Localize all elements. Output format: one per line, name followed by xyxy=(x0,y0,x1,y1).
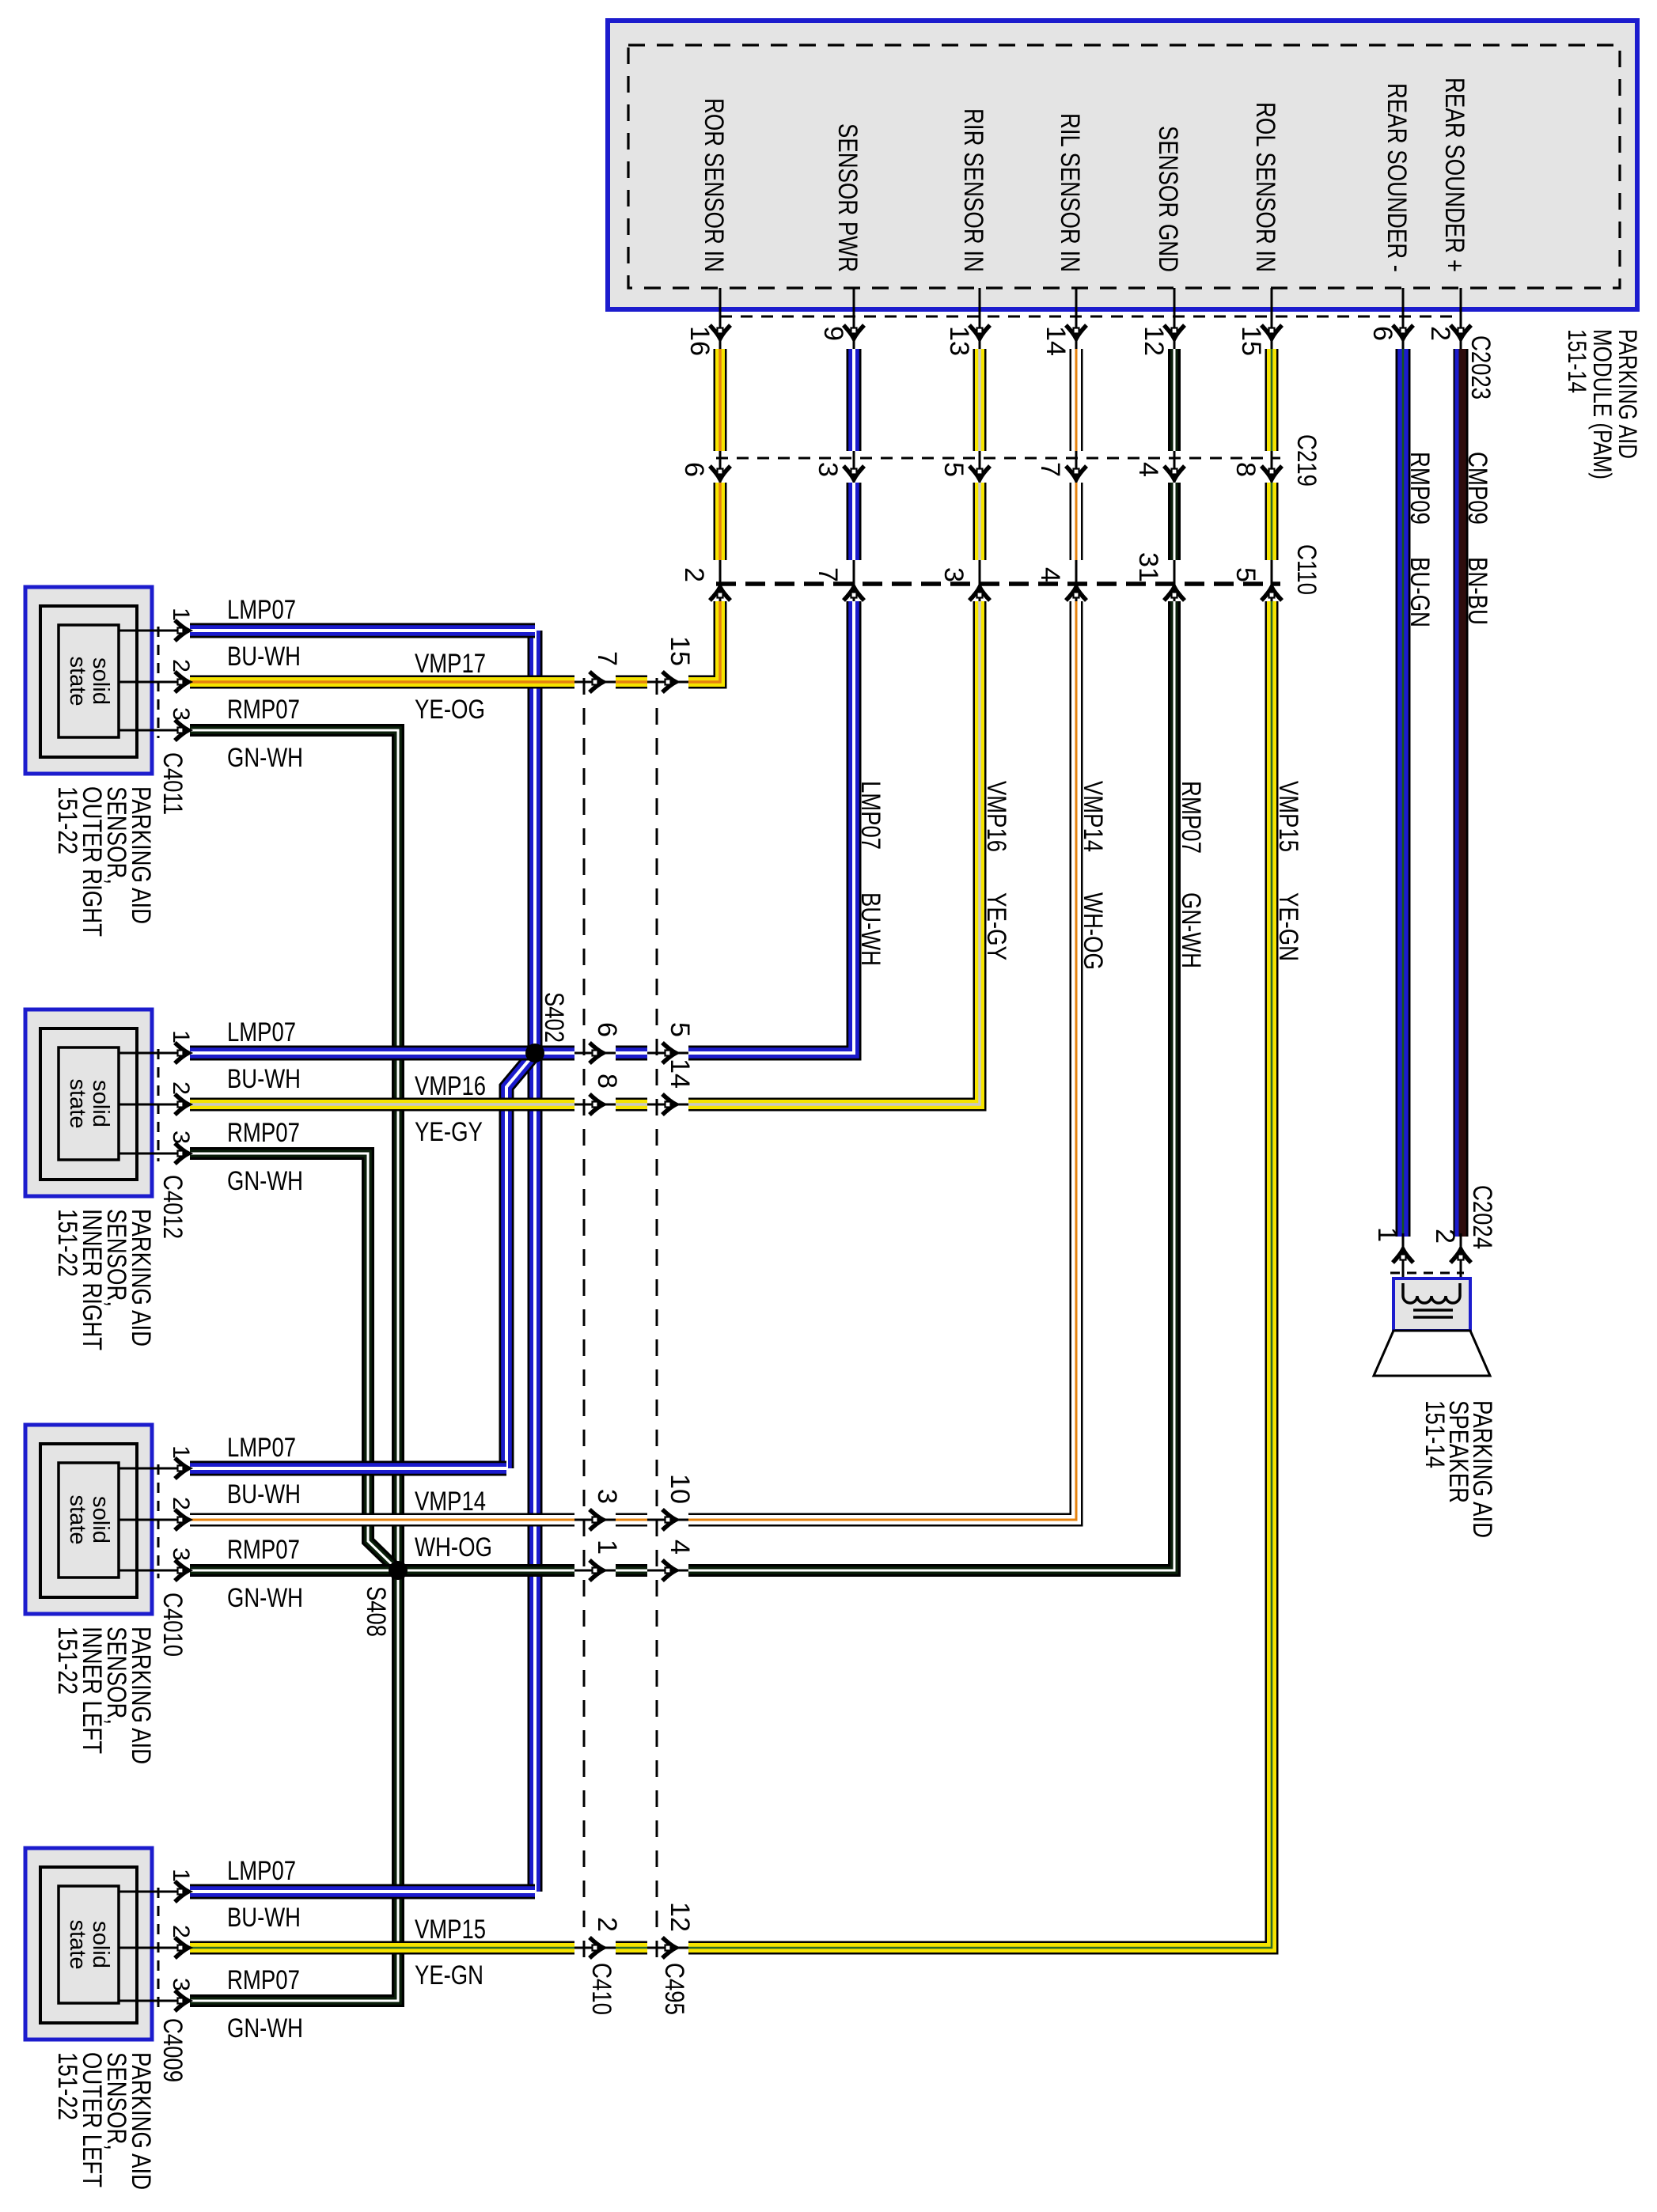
svg-text:151-22: 151-22 xyxy=(52,786,82,854)
svg-text:RMP07: RMP07 xyxy=(227,695,300,725)
svg-text:6: 6 xyxy=(679,462,709,477)
svg-text:3: 3 xyxy=(168,1131,194,1144)
svg-text:3: 3 xyxy=(168,1547,194,1561)
svg-text:YE-GY: YE-GY xyxy=(415,1117,483,1147)
svg-text:BU-WH: BU-WH xyxy=(227,642,301,672)
svg-text:15: 15 xyxy=(1236,326,1266,356)
svg-text:C2024: C2024 xyxy=(1467,1185,1497,1249)
svg-text:5: 5 xyxy=(938,462,969,477)
svg-text:SENSOR GND: SENSOR GND xyxy=(1153,126,1183,272)
svg-text:VMP15: VMP15 xyxy=(415,1915,486,1945)
svg-text:7: 7 xyxy=(1035,462,1065,477)
svg-text:3: 3 xyxy=(938,567,969,582)
svg-text:state: state xyxy=(65,1920,90,1970)
svg-text:16: 16 xyxy=(684,326,715,356)
svg-text:GN-WH: GN-WH xyxy=(227,743,303,773)
svg-text:5: 5 xyxy=(1230,567,1261,582)
svg-text:3: 3 xyxy=(168,707,194,721)
svg-text:ROR SENSOR IN: ROR SENSOR IN xyxy=(699,98,729,272)
svg-text:S408: S408 xyxy=(361,1586,391,1637)
svg-text:GN-WH: GN-WH xyxy=(227,1583,303,1613)
svg-text:14: 14 xyxy=(665,1059,695,1089)
svg-text:31: 31 xyxy=(1133,552,1163,582)
svg-text:BU-WH: BU-WH xyxy=(227,1064,301,1094)
svg-text:2: 2 xyxy=(1430,1229,1460,1244)
svg-text:2: 2 xyxy=(168,1497,194,1510)
svg-text:4: 4 xyxy=(665,1540,695,1555)
svg-text:3: 3 xyxy=(592,1489,622,1504)
svg-text:4: 4 xyxy=(1035,567,1065,582)
svg-text:1: 1 xyxy=(592,1540,622,1555)
svg-text:151-22: 151-22 xyxy=(52,1209,82,1277)
svg-text:RMP07: RMP07 xyxy=(1176,781,1206,854)
svg-text:2: 2 xyxy=(679,567,709,582)
svg-text:REAR SOUNDER -: REAR SOUNDER - xyxy=(1382,83,1412,272)
svg-text:SENSOR PWR: SENSOR PWR xyxy=(832,123,863,272)
svg-text:13: 13 xyxy=(944,326,974,356)
svg-text:RMP07: RMP07 xyxy=(227,1118,300,1148)
svg-text:LMP07: LMP07 xyxy=(227,1017,296,1047)
svg-text:RMP07: RMP07 xyxy=(227,1965,300,1995)
svg-text:GN-WH: GN-WH xyxy=(1176,892,1206,968)
svg-text:REAR SOUNDER +: REAR SOUNDER + xyxy=(1439,78,1469,272)
svg-text:2: 2 xyxy=(168,1081,194,1095)
svg-text:PARKING AID: PARKING AID xyxy=(1613,329,1642,459)
svg-text:YE-GY: YE-GY xyxy=(981,892,1011,960)
svg-text:1: 1 xyxy=(168,608,194,621)
svg-text:14: 14 xyxy=(1041,326,1071,356)
svg-text:5: 5 xyxy=(665,1022,695,1037)
svg-text:VMP15: VMP15 xyxy=(1273,781,1303,852)
svg-text:C4009: C4009 xyxy=(157,2018,188,2082)
svg-text:YE-OG: YE-OG xyxy=(415,695,485,725)
svg-text:C110: C110 xyxy=(1291,544,1321,595)
svg-text:C4010: C4010 xyxy=(157,1593,188,1657)
svg-text:YE-GN: YE-GN xyxy=(415,1960,483,1990)
svg-text:3: 3 xyxy=(168,1978,194,1991)
svg-text:2: 2 xyxy=(592,1917,622,1932)
svg-text:1: 1 xyxy=(168,1445,194,1459)
svg-text:6: 6 xyxy=(592,1022,622,1037)
svg-text:12: 12 xyxy=(1139,326,1169,356)
svg-text:151-14: 151-14 xyxy=(1420,1400,1450,1468)
svg-text:MODULE (PAM): MODULE (PAM) xyxy=(1588,329,1617,479)
svg-text:ROL SENSOR IN: ROL SENSOR IN xyxy=(1250,102,1280,272)
svg-text:LMP07: LMP07 xyxy=(227,595,296,625)
svg-text:C219: C219 xyxy=(1291,434,1321,487)
svg-text:CMP09: CMP09 xyxy=(1462,452,1492,525)
svg-text:VMP16: VMP16 xyxy=(415,1071,486,1101)
svg-text:C410: C410 xyxy=(586,1963,616,2015)
svg-text:BU-WH: BU-WH xyxy=(227,1903,301,1933)
svg-text:BU-WH: BU-WH xyxy=(227,1479,301,1509)
svg-text:1: 1 xyxy=(1372,1227,1402,1242)
svg-text:2: 2 xyxy=(168,1925,194,1938)
svg-text:151-14: 151-14 xyxy=(1563,329,1591,393)
svg-text:C495: C495 xyxy=(659,1963,689,2015)
svg-text:WH-OG: WH-OG xyxy=(415,1532,492,1562)
svg-text:RMP09: RMP09 xyxy=(1405,452,1435,525)
svg-text:12: 12 xyxy=(665,1902,695,1932)
svg-text:S402: S402 xyxy=(539,992,569,1043)
svg-text:solid: solid xyxy=(88,1921,113,1968)
svg-text:state: state xyxy=(65,1495,90,1545)
svg-text:3: 3 xyxy=(813,462,843,477)
svg-text:151-22: 151-22 xyxy=(52,1627,82,1695)
svg-text:YE-GN: YE-GN xyxy=(1273,892,1303,961)
svg-text:2: 2 xyxy=(1425,326,1455,341)
svg-text:solid: solid xyxy=(88,657,113,705)
svg-text:151-22: 151-22 xyxy=(52,2052,82,2120)
svg-text:1: 1 xyxy=(168,1030,194,1044)
svg-text:6: 6 xyxy=(1367,326,1397,341)
svg-text:RMP07: RMP07 xyxy=(227,1535,300,1565)
svg-text:WH-OG: WH-OG xyxy=(1078,892,1108,970)
svg-text:RIR SENSOR IN: RIR SENSOR IN xyxy=(958,108,988,272)
svg-text:15: 15 xyxy=(665,636,695,666)
svg-text:LMP07: LMP07 xyxy=(855,781,885,850)
svg-text:C4012: C4012 xyxy=(157,1175,188,1239)
svg-text:VMP16: VMP16 xyxy=(981,781,1011,852)
svg-text:LMP07: LMP07 xyxy=(227,1856,296,1886)
svg-text:solid: solid xyxy=(88,1080,113,1127)
svg-text:state: state xyxy=(65,657,90,706)
svg-text:GN-WH: GN-WH xyxy=(227,2013,303,2043)
svg-text:9: 9 xyxy=(818,326,848,341)
svg-text:state: state xyxy=(65,1079,90,1129)
svg-text:BU-WH: BU-WH xyxy=(855,892,885,966)
svg-text:RIL SENSOR IN: RIL SENSOR IN xyxy=(1055,113,1085,272)
svg-text:2: 2 xyxy=(168,659,194,672)
svg-text:VMP17: VMP17 xyxy=(415,649,486,679)
svg-text:7: 7 xyxy=(813,567,843,582)
svg-text:C4011: C4011 xyxy=(157,752,188,815)
svg-text:7: 7 xyxy=(592,651,622,666)
svg-text:BU-GN: BU-GN xyxy=(1405,557,1435,627)
svg-text:LMP07: LMP07 xyxy=(227,1433,296,1463)
svg-text:8: 8 xyxy=(1230,462,1261,477)
svg-text:VMP14: VMP14 xyxy=(415,1487,486,1517)
svg-text:10: 10 xyxy=(665,1474,695,1504)
svg-text:BN-BU: BN-BU xyxy=(1462,557,1492,625)
svg-text:1: 1 xyxy=(168,1869,194,1882)
svg-text:8: 8 xyxy=(592,1074,622,1089)
svg-text:C2023: C2023 xyxy=(1466,335,1496,400)
svg-text:4: 4 xyxy=(1133,462,1163,477)
svg-text:GN-WH: GN-WH xyxy=(227,1166,303,1196)
svg-text:solid: solid xyxy=(88,1496,113,1543)
svg-text:VMP14: VMP14 xyxy=(1078,781,1108,852)
